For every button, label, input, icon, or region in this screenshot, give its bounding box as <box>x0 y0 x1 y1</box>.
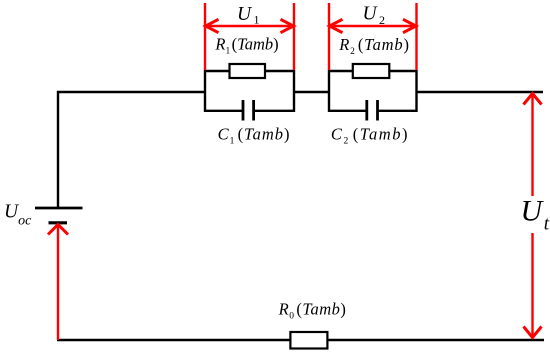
RC block 2 outline <box>328 70 418 112</box>
RC block 1 outline <box>204 70 295 112</box>
label U_oc <box>4 202 32 229</box>
resistor R2 <box>353 64 390 78</box>
voltage arrow Ut <box>524 93 542 338</box>
wire top left <box>57 91 206 93</box>
wire top right <box>416 91 544 93</box>
svg-text:C2 (Tamb): C2 (Tamb) <box>331 125 409 147</box>
svg-text:R2 (Tamb): R2 (Tamb) <box>338 35 410 57</box>
resistor R0 <box>290 332 327 349</box>
wire left vertical <box>57 91 59 208</box>
label R0 (Tamb) <box>278 300 347 322</box>
current arrow toward battery (red) <box>48 225 68 341</box>
dimension arrow U1 <box>205 19 294 32</box>
voltage source U_oc (battery) <box>35 208 83 223</box>
dimension extension line left of U2 <box>328 3 330 70</box>
dimension extension line left of U1 <box>204 3 206 70</box>
svg-text:C1 (Tamb): C1 (Tamb) <box>218 125 291 147</box>
label R1 (Tamb) <box>214 35 278 57</box>
svg-text:R1 (Tamb): R1 (Tamb) <box>214 35 278 57</box>
capacitor C2 <box>367 100 378 121</box>
label U2 <box>363 4 386 28</box>
label R2 (Tamb) <box>338 35 410 57</box>
dimension extension line right of U1 <box>293 3 295 70</box>
label C2 (Tamb) <box>331 125 409 147</box>
dimension extension line right of U2 <box>415 3 417 70</box>
label C1 (Tamb) <box>218 125 291 147</box>
label U1 <box>237 4 260 27</box>
svg-text:R0 (Tamb): R0 (Tamb) <box>278 300 347 322</box>
wire between RC blocks <box>293 91 330 93</box>
capacitor C1 <box>243 100 254 121</box>
resistor R1 <box>230 64 266 78</box>
label Ut <box>521 195 550 235</box>
wire bottom <box>57 339 544 342</box>
dimension arrow U2 <box>329 19 417 32</box>
